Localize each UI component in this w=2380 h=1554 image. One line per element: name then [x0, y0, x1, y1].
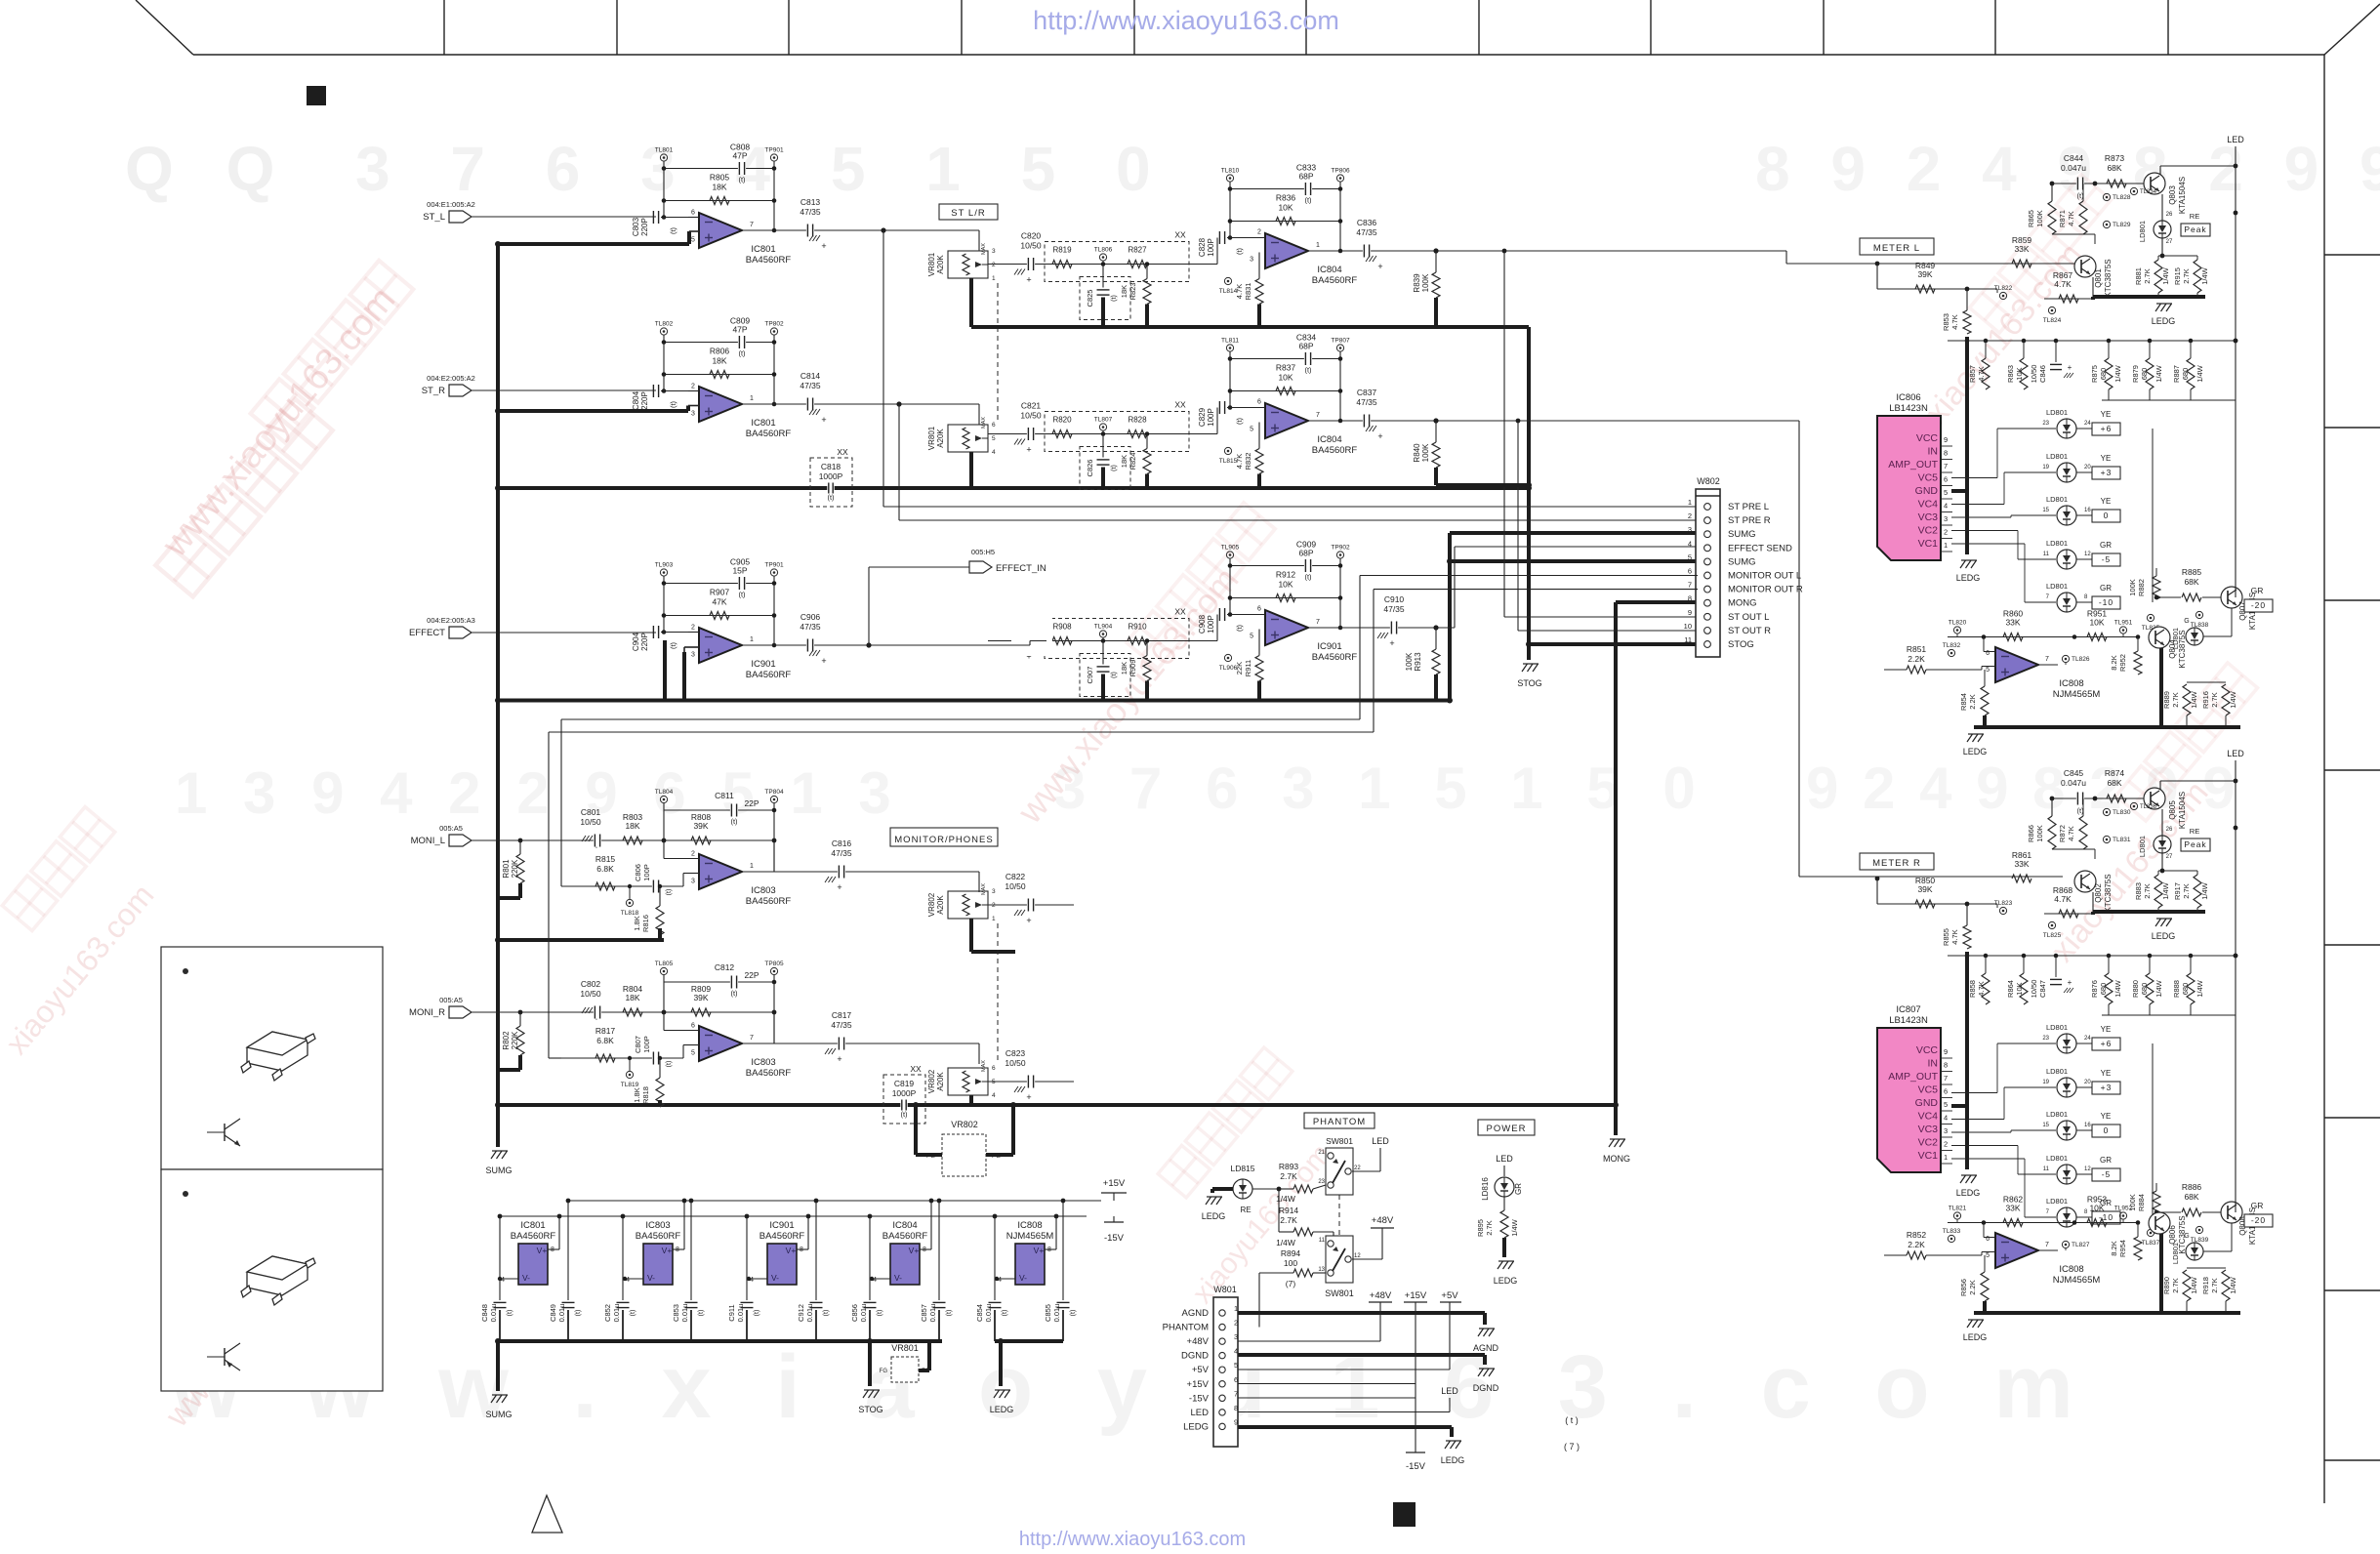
svg-text:(t): (t): [1111, 465, 1118, 471]
svg-text:+5V: +5V: [1441, 1290, 1458, 1301]
svg-text:C855: C855: [1044, 1304, 1052, 1322]
svg-text:11: 11: [1684, 635, 1692, 644]
svg-text:LED: LED: [1441, 1386, 1458, 1396]
svg-text:LD801: LD801: [2046, 582, 2068, 591]
svg-text:KTA1504S: KTA1504S: [2178, 177, 2187, 214]
svg-text:7: 7: [750, 1035, 754, 1042]
svg-text:18K: 18K: [1120, 662, 1128, 675]
svg-text:MONI_L: MONI_L: [411, 836, 445, 846]
svg-text:BA4560RF: BA4560RF: [746, 1068, 792, 1079]
svg-text:C813: C813: [800, 197, 821, 207]
svg-text:C826: C826: [1086, 460, 1094, 477]
svg-text:10K: 10K: [2015, 367, 2024, 380]
svg-text:1: 1: [992, 275, 996, 282]
svg-text:4: 4: [1944, 1114, 1948, 1123]
svg-text:TL905: TL905: [1221, 545, 1240, 552]
svg-text:2: 2: [691, 384, 695, 390]
svg-text:RE: RE: [2190, 212, 2199, 221]
svg-text:15: 15: [2042, 508, 2049, 513]
svg-text:SUMG: SUMG: [1728, 529, 1756, 540]
svg-text:GR: GR: [2100, 1156, 2112, 1165]
svg-text:G: G: [2184, 618, 2189, 625]
svg-text:LED: LED: [1372, 1136, 1389, 1146]
svg-text:R916: R916: [2201, 691, 2210, 709]
svg-text:68K: 68K: [2107, 778, 2121, 788]
svg-text:4.7K: 4.7K: [1977, 366, 1986, 381]
svg-text:IC803: IC803: [645, 1220, 670, 1231]
svg-text:KTC3875S: KTC3875S: [2178, 1215, 2187, 1253]
svg-text:R913: R913: [1414, 652, 1422, 672]
svg-text:IN: IN: [1928, 446, 1939, 458]
svg-text:NJM4565M: NJM4565M: [2053, 1275, 2101, 1286]
svg-text:2.7K: 2.7K: [2210, 692, 2219, 707]
svg-text:R954: R954: [2118, 1240, 2127, 1257]
svg-text:( 7 ): ( 7 ): [1564, 1442, 1580, 1452]
svg-text:R840: R840: [1413, 443, 1421, 463]
svg-text:IC901: IC901: [751, 659, 775, 670]
svg-text:(t): (t): [738, 349, 746, 358]
svg-text:TP805: TP805: [764, 961, 784, 967]
svg-text:(t): (t): [1235, 247, 1244, 255]
svg-text:1: 1: [1234, 1304, 1238, 1313]
svg-text:R819: R819: [1052, 246, 1072, 255]
svg-text:3: 3: [992, 248, 996, 255]
svg-text:+6: +6: [2101, 1039, 2113, 1048]
svg-text:IC804: IC804: [892, 1220, 917, 1231]
svg-text:TL807: TL807: [1094, 417, 1113, 424]
svg-text:IC901: IC901: [1317, 641, 1341, 652]
svg-text:R823: R823: [1128, 283, 1137, 301]
svg-text:+3: +3: [2101, 468, 2113, 477]
svg-text:A20K: A20K: [936, 255, 945, 274]
svg-text:YE: YE: [2101, 454, 2112, 463]
svg-text:8: 8: [1944, 449, 1948, 458]
svg-text:VC2: VC2: [1918, 525, 1939, 537]
svg-text:(t): (t): [669, 400, 677, 408]
svg-text:68P: 68P: [1298, 549, 1313, 558]
svg-text:C822: C822: [1005, 872, 1026, 881]
svg-text:5: 5: [1234, 1361, 1238, 1370]
svg-text:2: 2: [1688, 511, 1692, 520]
svg-text:C801: C801: [581, 807, 601, 817]
svg-text:C821: C821: [1021, 401, 1042, 411]
svg-text:(t): (t): [1111, 672, 1118, 678]
svg-text:68K: 68K: [2184, 1192, 2198, 1202]
svg-text:-15V: -15V: [1104, 1233, 1125, 1244]
svg-text:10K: 10K: [2015, 982, 2024, 995]
svg-text:+: +: [837, 882, 841, 892]
svg-text:1: 1: [1688, 498, 1692, 507]
svg-text:6: 6: [1257, 606, 1261, 613]
svg-text:19: 19: [2042, 1080, 2049, 1085]
svg-text:A20K: A20K: [936, 895, 945, 915]
svg-text:2.7K: 2.7K: [2182, 883, 2191, 898]
svg-text:TP901: TP901: [764, 147, 784, 154]
svg-text:2: 2: [1234, 1319, 1238, 1328]
svg-text:4: 4: [1688, 539, 1692, 548]
svg-text:LED: LED: [1191, 1408, 1210, 1418]
svg-text:0.01u: 0.01u: [489, 1304, 498, 1323]
svg-text:ST PRE R: ST PRE R: [1728, 515, 1771, 526]
svg-text:16: 16: [2084, 1123, 2091, 1128]
svg-text:100: 100: [1284, 1258, 1297, 1268]
svg-text:+: +: [1389, 638, 1394, 648]
svg-text:VCC: VCC: [1916, 432, 1939, 444]
svg-text:GR: GR: [1514, 1183, 1523, 1195]
svg-text:TL952: TL952: [2114, 1206, 2133, 1212]
svg-text:IC804: IC804: [1317, 434, 1341, 445]
svg-text:R894: R894: [1281, 1248, 1301, 1258]
svg-text:(t): (t): [575, 1310, 582, 1317]
svg-text:R824: R824: [1128, 453, 1137, 470]
svg-text:4.7K: 4.7K: [1950, 929, 1959, 944]
svg-text:004:E2:005:A3: 004:E2:005:A3: [427, 616, 475, 625]
svg-text:C811: C811: [715, 791, 734, 800]
svg-text:2.7K: 2.7K: [2171, 692, 2180, 707]
svg-text:6: 6: [1944, 475, 1948, 484]
svg-text:VC2: VC2: [1918, 1137, 1939, 1149]
svg-text:LEDG: LEDG: [1441, 1455, 1465, 1465]
svg-text:10/50: 10/50: [2030, 365, 2038, 384]
svg-text:C812: C812: [715, 962, 735, 972]
svg-text:YE: YE: [2101, 1025, 2112, 1034]
svg-text:GR: GR: [2251, 1201, 2264, 1210]
svg-text:0.01u: 0.01u: [612, 1304, 621, 1323]
svg-text:10K: 10K: [2089, 618, 2104, 628]
svg-text:8: 8: [1234, 1404, 1238, 1412]
svg-text:+: +: [1026, 445, 1031, 455]
svg-text:1: 1: [1316, 242, 1320, 249]
svg-text:R915: R915: [2173, 267, 2182, 285]
svg-text:V+: V+: [1034, 1246, 1045, 1255]
svg-text:V-: V-: [647, 1273, 655, 1283]
svg-text:5: 5: [992, 435, 996, 442]
svg-text:(t): (t): [900, 1110, 908, 1119]
svg-text:7: 7: [1688, 581, 1692, 590]
svg-text:0.01u: 0.01u: [859, 1304, 868, 1323]
svg-text:0.01u: 0.01u: [1052, 1304, 1061, 1323]
svg-text:0.01u: 0.01u: [805, 1304, 814, 1323]
svg-text:XX: XX: [1174, 400, 1186, 410]
svg-text:LD801: LD801: [2046, 1023, 2068, 1032]
svg-text:+: +: [1026, 275, 1031, 285]
svg-text:4: 4: [1944, 502, 1948, 511]
svg-text:MONI_R: MONI_R: [409, 1007, 445, 1018]
svg-text:C852: C852: [603, 1304, 612, 1322]
svg-text:LD801: LD801: [2046, 1197, 2068, 1206]
svg-text:MONITOR/PHONES: MONITOR/PHONES: [894, 835, 993, 845]
svg-text:26: 26: [2166, 827, 2173, 833]
svg-text:100K: 100K: [1421, 273, 1430, 292]
svg-text:1: 1: [750, 863, 754, 870]
svg-text:(t): (t): [666, 1061, 673, 1068]
svg-text:METER R: METER R: [1872, 858, 1921, 869]
svg-text:C819: C819: [894, 1079, 915, 1088]
svg-text:24: 24: [2084, 1036, 2091, 1042]
svg-text:LD801: LD801: [2046, 452, 2068, 461]
svg-text:005:H5: 005:H5: [971, 548, 995, 556]
svg-text:68P: 68P: [1298, 172, 1313, 182]
svg-text:C910: C910: [1384, 594, 1405, 604]
svg-text:R873: R873: [2105, 153, 2125, 163]
svg-text:LD816: LD816: [1481, 1177, 1490, 1201]
svg-text:LEDG: LEDG: [1202, 1211, 1226, 1221]
svg-text:Peak: Peak: [2184, 225, 2206, 234]
svg-text:C904: C904: [632, 632, 640, 651]
svg-text:24: 24: [2084, 421, 2091, 427]
svg-text:XX: XX: [1174, 230, 1186, 240]
svg-text:+: +: [1026, 1092, 1031, 1102]
svg-text:2: 2: [1944, 528, 1948, 537]
svg-text:1/4W: 1/4W: [1276, 1238, 1295, 1247]
svg-text:12: 12: [2084, 552, 2091, 557]
svg-text:AGND: AGND: [1473, 1343, 1499, 1353]
svg-text:+15V: +15V: [1405, 1290, 1427, 1301]
svg-text:R864: R864: [2006, 980, 2015, 998]
svg-text:R882: R882: [2137, 579, 2146, 596]
svg-text:680: 680: [2181, 983, 2190, 996]
svg-text:1/4W: 1/4W: [2113, 979, 2122, 997]
svg-text:18K: 18K: [1120, 455, 1128, 468]
svg-text:20: 20: [2084, 465, 2091, 470]
svg-text:47P: 47P: [732, 151, 747, 161]
svg-text:47/35: 47/35: [831, 848, 852, 858]
svg-text:(t): (t): [630, 1310, 636, 1317]
svg-text:KTC3875S: KTC3875S: [2104, 874, 2113, 912]
svg-text:LED: LED: [2227, 749, 2244, 758]
svg-text:R871: R871: [2058, 210, 2067, 227]
svg-text:C818: C818: [821, 462, 841, 471]
svg-text:TL904: TL904: [1094, 624, 1113, 631]
svg-text:R881: R881: [2134, 267, 2143, 285]
svg-text:10/50: 10/50: [1020, 241, 1042, 251]
svg-text:R865: R865: [2027, 210, 2035, 227]
svg-text:VR802: VR802: [927, 892, 936, 917]
svg-text:(t): (t): [823, 1310, 830, 1317]
svg-text:(t): (t): [666, 889, 673, 896]
svg-text:4.7K: 4.7K: [1235, 284, 1244, 299]
svg-text:VC1: VC1: [1918, 1150, 1939, 1162]
svg-text:1000P: 1000P: [892, 1088, 917, 1098]
svg-text:4.7K: 4.7K: [1235, 454, 1244, 469]
svg-text:R831: R831: [1244, 283, 1252, 301]
svg-text:w w w . x i a o y u 1 6 3 . c: w w w . x i a o y u 1 6 3 . c o m: [170, 1337, 2093, 1437]
svg-text:19: 19: [2042, 465, 2049, 470]
svg-text:KTA1504S: KTA1504S: [2178, 792, 2187, 829]
svg-text:TL811: TL811: [1221, 338, 1239, 345]
svg-text:10K: 10K: [1278, 580, 1293, 590]
svg-text:(t): (t): [754, 1310, 760, 1317]
svg-text:LED: LED: [2227, 135, 2244, 144]
svg-text:BA4560RF: BA4560RF: [746, 896, 792, 907]
svg-text:C804: C804: [632, 390, 640, 410]
svg-text:3 7 6 3 1 5 1 5 0: 3 7 6 3 1 5 1 5 0: [1053, 756, 1709, 821]
svg-text:YE: YE: [2101, 410, 2112, 419]
svg-text:3: 3: [1250, 257, 1253, 264]
svg-text:( t ): ( t ): [1565, 1415, 1579, 1425]
svg-text:LED: LED: [1496, 1154, 1513, 1164]
svg-text:0.047u: 0.047u: [2061, 778, 2086, 788]
svg-text:TL819: TL819: [621, 1082, 639, 1088]
svg-text:20: 20: [2084, 1080, 2091, 1085]
svg-text:(t): (t): [1304, 196, 1312, 205]
svg-text:R908: R908: [1052, 623, 1072, 632]
svg-text:VR802: VR802: [951, 1120, 978, 1129]
svg-text:5: 5: [1944, 488, 1948, 497]
svg-text:BA4560RF: BA4560RF: [746, 670, 792, 680]
svg-text:0.01u: 0.01u: [984, 1304, 993, 1323]
svg-text:22P: 22P: [744, 798, 759, 808]
svg-text:R893: R893: [1279, 1162, 1299, 1171]
svg-text:18K: 18K: [625, 993, 639, 1002]
svg-text:12: 12: [2084, 1166, 2091, 1172]
svg-text:LD815: LD815: [1230, 1164, 1254, 1173]
svg-text:TL903: TL903: [655, 562, 674, 569]
svg-text:LEDG: LEDG: [1956, 1188, 1981, 1198]
svg-text:2: 2: [691, 851, 695, 858]
svg-text:GND: GND: [1915, 485, 1939, 497]
svg-text:-20: -20: [2251, 600, 2266, 610]
svg-text:1/4W: 1/4W: [2200, 266, 2209, 284]
svg-text:+: +: [837, 1054, 841, 1064]
svg-text:STOG: STOG: [858, 1405, 882, 1414]
svg-text:23: 23: [2042, 421, 2049, 427]
svg-text:1/4W: 1/4W: [2229, 1276, 2237, 1293]
svg-text:PHANTOM: PHANTOM: [1163, 1323, 1209, 1333]
svg-text:27: 27: [2166, 854, 2173, 860]
svg-text:IC801: IC801: [751, 244, 775, 255]
svg-text:(t): (t): [669, 226, 677, 234]
svg-text:R895: R895: [1476, 1219, 1485, 1237]
svg-text:LEDG: LEDG: [1494, 1276, 1518, 1286]
svg-text:47/35: 47/35: [800, 381, 821, 390]
svg-text:(t): (t): [738, 591, 746, 599]
svg-text:IC808: IC808: [1017, 1220, 1042, 1231]
svg-text:9: 9: [1944, 1047, 1948, 1056]
svg-text:3: 3: [691, 879, 695, 885]
svg-text:VR801: VR801: [927, 252, 936, 276]
svg-text:Peak: Peak: [2184, 839, 2206, 849]
svg-text:DGND: DGND: [1473, 1383, 1499, 1393]
svg-text:TL828: TL828: [2113, 194, 2131, 201]
svg-text:R866: R866: [2027, 825, 2035, 842]
svg-text:C829: C829: [1198, 407, 1207, 427]
svg-text:IC803: IC803: [751, 885, 775, 896]
svg-text:004:E2:005:A2: 004:E2:005:A2: [427, 374, 475, 383]
svg-text:C816: C816: [832, 838, 852, 848]
svg-text:(t): (t): [738, 176, 746, 184]
svg-text:TL820: TL820: [1949, 620, 1967, 627]
svg-text:R839: R839: [1413, 273, 1421, 293]
svg-text:C846: C846: [2038, 365, 2047, 383]
svg-text:2: 2: [992, 262, 996, 268]
svg-text:(t): (t): [877, 1310, 883, 1317]
svg-text:22K: 22K: [1235, 662, 1244, 675]
svg-text:Q806: Q806: [2168, 1225, 2177, 1245]
svg-text:7: 7: [750, 222, 754, 228]
svg-text:SUMG: SUMG: [1728, 556, 1756, 567]
svg-text:6: 6: [992, 422, 996, 429]
svg-text:ST OUT R: ST OUT R: [1728, 626, 1771, 636]
svg-text:TP802: TP802: [764, 321, 784, 328]
svg-text:Q804: Q804: [2168, 639, 2177, 659]
svg-text:BA4560RF: BA4560RF: [746, 429, 792, 439]
svg-text:IC808: IC808: [2059, 678, 2083, 689]
svg-text:C814: C814: [800, 371, 821, 381]
svg-text:+: +: [1377, 262, 1382, 271]
svg-text:8: 8: [1688, 594, 1692, 603]
svg-text:TL804: TL804: [655, 789, 674, 796]
svg-text:TL805: TL805: [655, 961, 674, 967]
svg-text:IC901: IC901: [769, 1220, 794, 1231]
svg-text:R801: R801: [502, 859, 511, 879]
svg-text:4.7K: 4.7K: [1977, 981, 1986, 996]
svg-text:680: 680: [2140, 983, 2149, 996]
svg-text:IC808: IC808: [2059, 1264, 2083, 1275]
svg-text:(t): (t): [1070, 1310, 1077, 1317]
svg-text:(t): (t): [730, 989, 738, 998]
svg-text:6: 6: [1257, 399, 1261, 406]
svg-text:C844: C844: [2064, 153, 2084, 163]
svg-text:C848: C848: [480, 1304, 489, 1322]
svg-text:1/4W: 1/4W: [2190, 1276, 2198, 1293]
svg-text:R816: R816: [641, 915, 650, 932]
svg-text:C854: C854: [975, 1304, 984, 1322]
svg-text:3: 3: [1944, 514, 1948, 523]
svg-text:9: 9: [1688, 608, 1692, 617]
svg-text:R817: R817: [595, 1026, 616, 1036]
svg-text:VC4: VC4: [1918, 499, 1939, 511]
svg-text:5: 5: [1250, 634, 1253, 640]
svg-text:68K: 68K: [2184, 577, 2198, 587]
svg-text:2.7K: 2.7K: [2210, 1278, 2219, 1292]
svg-text:C853: C853: [672, 1304, 680, 1322]
svg-text:YE: YE: [2101, 1069, 2112, 1078]
svg-text:2.7K: 2.7K: [1280, 1215, 1297, 1225]
svg-text:R952: R952: [2118, 654, 2127, 672]
svg-text:+15V: +15V: [1187, 1379, 1210, 1390]
svg-text:KTC3875S: KTC3875S: [2104, 259, 2113, 297]
svg-text:15P: 15P: [732, 566, 747, 576]
svg-text:R890: R890: [2162, 1277, 2171, 1294]
svg-text:MONG: MONG: [1603, 1154, 1630, 1164]
svg-text:6: 6: [992, 1065, 996, 1072]
svg-text:2.2K: 2.2K: [1908, 654, 1925, 664]
svg-text:R888: R888: [2172, 980, 2181, 998]
svg-text:22P: 22P: [744, 970, 759, 980]
svg-text:8.2K: 8.2K: [2110, 655, 2118, 670]
svg-text:SUMG: SUMG: [486, 1410, 513, 1419]
svg-text:220P: 220P: [640, 391, 649, 410]
svg-text:R863: R863: [2006, 365, 2015, 383]
svg-text:(t): (t): [1304, 573, 1312, 582]
svg-text:R880: R880: [2131, 980, 2140, 998]
svg-text:4.7K: 4.7K: [1950, 314, 1959, 329]
svg-text:39K: 39K: [1917, 884, 1932, 894]
svg-text:TL832: TL832: [1943, 642, 1961, 649]
svg-text:C828: C828: [1198, 237, 1207, 257]
svg-text:2.2K: 2.2K: [1968, 694, 1977, 709]
svg-text:MAX: MAX: [981, 883, 987, 895]
svg-text:R883: R883: [2134, 882, 2143, 900]
svg-text:V+: V+: [537, 1246, 548, 1255]
svg-text:LD801: LD801: [2046, 1110, 2068, 1119]
svg-text:TP902: TP902: [1331, 545, 1350, 552]
svg-text:+5V: +5V: [1192, 1365, 1210, 1375]
svg-text:VC5: VC5: [1918, 1084, 1939, 1096]
svg-text:GR: GR: [2100, 541, 2112, 550]
svg-text:47P: 47P: [732, 325, 747, 335]
